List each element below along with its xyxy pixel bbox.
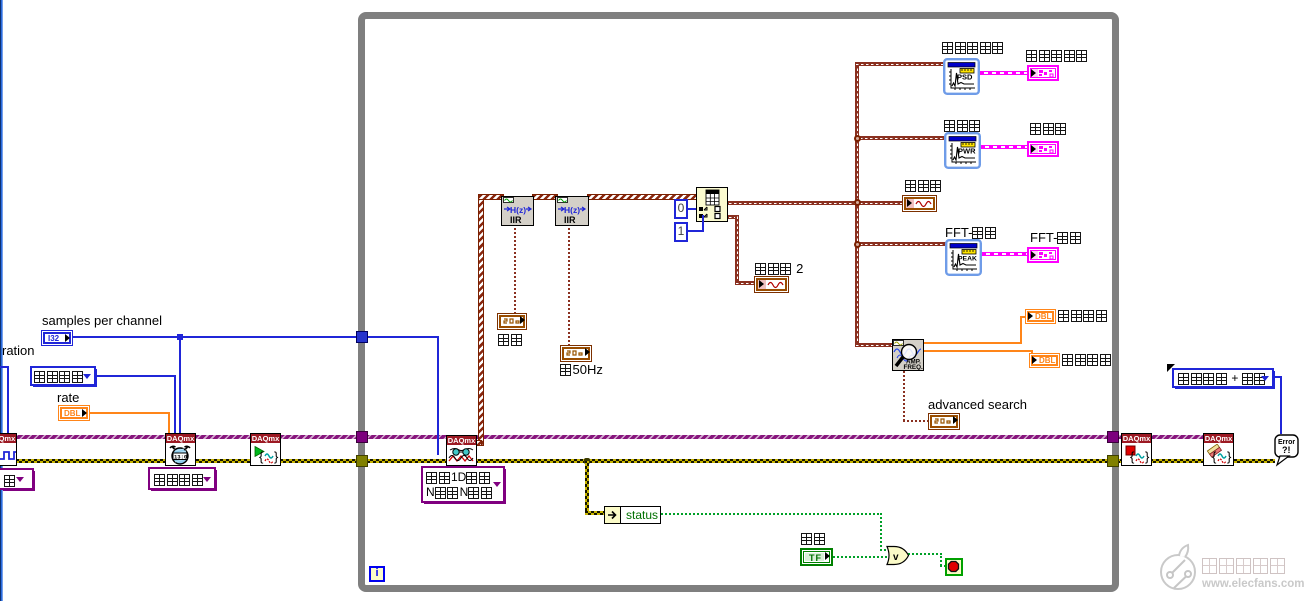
label: time domain graph: [905, 180, 943, 193]
label: PWR node: [944, 120, 982, 133]
wire: blue from continuous-sampling ring: [96, 375, 176, 377]
indicator: PWR dynamic data: [1027, 141, 1059, 157]
wire: 1 to index array: [688, 230, 704, 232]
svg-text:?!: ?!: [1282, 445, 1291, 455]
label: filter 50Hz: [560, 364, 603, 377]
wire: green OR output to stop terminal: [908, 553, 942, 555]
wire: blue vertical to DAQmx read: [437, 336, 439, 455]
terminal: loop iteration i: [369, 566, 385, 582]
wire: waveform branch to PSD: [855, 62, 944, 66]
indicator: PSD dynamic data: [1027, 65, 1059, 81]
wire: green TF to OR: [833, 556, 887, 558]
indicator: FFT peak dynamic data: [1027, 247, 1059, 263]
node: DAQmx clear task: [1203, 433, 1234, 466]
node: amplitude and frequency measurement AMP FREQ: [892, 339, 924, 371]
wire: waveform branch to AMP-FREQ: [855, 343, 893, 347]
node: IIR filter 1: [501, 196, 534, 226]
label: rate: [57, 391, 79, 404]
ring: OK message + warning (blue): [1172, 368, 1274, 388]
indicator: frequency result DBL: [1025, 309, 1056, 324]
svg-text:PSD: PSD: [957, 73, 973, 82]
node: index array: [696, 187, 728, 222]
indicator: time domain graph 2: [754, 276, 789, 293]
label: frequency result: [1058, 310, 1108, 323]
enum: highpass: [497, 313, 527, 330]
svg-text:PWR: PWR: [958, 147, 976, 156]
node: DAQmx create channel (cut at left edge): [0, 433, 17, 466]
ring: voltage (purple, cut at left): [0, 468, 34, 490]
wire: hatched horizontal IIR2-to-index-array: [587, 194, 698, 200]
wire: brown dotted IIR2 to 50Hz enum: [568, 226, 570, 346]
svg-text:IIR: IIR: [564, 215, 576, 225]
wire: hatched waveform-array vertical from DAQmx read: [478, 196, 484, 446]
svg-text:}: }: [1145, 449, 1150, 464]
wire: hatched stub into read node: [472, 440, 482, 446]
wire: brown dotted IIR1 to highpass enum: [514, 226, 516, 314]
wire: waveform branch to PWR: [859, 136, 945, 140]
constant: 0: [674, 199, 688, 219]
left window edge: [0, 0, 3, 601]
svg-text:}: }: [1227, 449, 1232, 464]
wire: orange AMP out2 to amplitude DBL: [924, 350, 1033, 352]
wire: samples per channel blue horizontal: [73, 336, 439, 338]
wire: 0 to index array: [688, 208, 696, 210]
watermark: elecfans logo: [1155, 543, 1203, 595]
wire: orange AMP out1 to frequency DBL: [924, 342, 1022, 344]
svg-text:v: v: [893, 552, 899, 563]
while loop border: [358, 12, 1119, 592]
wire: error cluster main run: [16, 459, 1275, 463]
wire: hatched horizontal read-to-IIR1: [478, 194, 504, 200]
node: bus junction at main input: [854, 199, 861, 206]
ring: continuous sampling (blue): [30, 366, 96, 386]
label: highpass: [498, 334, 523, 347]
node: simple error handler Error?!: [1274, 433, 1300, 467]
control: stop TF boolean: [800, 548, 833, 566]
svg-text:H(z): H(z): [510, 205, 526, 215]
tunnel: purple left: [356, 431, 368, 443]
wire: brown dotted AMP to advanced search: [903, 371, 905, 421]
watermark: url: [1202, 578, 1304, 590]
svg-text:13:0: 13:0: [174, 454, 187, 461]
node: DAQmx read: [446, 435, 477, 466]
control: rate DBL: [58, 405, 90, 421]
wire: waveform main index-array to bus: [728, 201, 860, 205]
wire: waveform horizontal to time-domain-2: [735, 281, 756, 285]
node: bus junction at PEAK: [854, 241, 861, 248]
tunnel: blue on left border: [356, 331, 368, 343]
svg-text:H(z): H(z): [564, 205, 580, 215]
node: blue junction on samples wire: [177, 334, 183, 340]
wire: orange rate to timing node: [90, 412, 170, 414]
enum: filter 50Hz: [560, 345, 592, 362]
terminal: loop condition stop: [945, 558, 963, 576]
control: samples per channel I32: [41, 330, 73, 346]
ring: sample clock (purple): [148, 467, 216, 490]
wire: DAQmx task purple main run: [16, 435, 1121, 439]
node: DAQmx timing: [165, 433, 196, 466]
svg-text:{: {: [259, 449, 264, 464]
wire: waveform bus vertical: [855, 62, 859, 347]
label: ration (cut): [2, 344, 35, 357]
express VI: FFT peak PEAK: [945, 239, 982, 276]
node: IIR filter 2: [555, 196, 589, 226]
wire: magenta PWR to indicator: [981, 145, 1027, 149]
svg-text:IIR: IIR: [510, 215, 522, 225]
wire: waveform index-array out2 stub: [728, 215, 739, 219]
svg-text:PEAK: PEAK: [958, 256, 977, 263]
constant: 1: [674, 222, 688, 242]
svg-text:{: {: [1130, 449, 1135, 464]
label: PSD node: [942, 42, 1005, 55]
indicator: time domain graph: [902, 195, 937, 212]
label: time domain graph 2: [755, 263, 803, 276]
tunnel: olive right: [1107, 455, 1119, 467]
svg-text:{: {: [1212, 449, 1217, 464]
wire: blue error-dialog ring to error-out: [1274, 376, 1282, 378]
node: error wire junction: [584, 458, 590, 464]
wire: hatched horizontal IIR1-to-IIR2: [532, 194, 558, 200]
wire: blue physical channel elbow at left edge: [0, 366, 9, 368]
wire: green status out: [661, 513, 882, 515]
tunnel: olive left: [356, 455, 368, 467]
marker: ring fold corner: [1167, 364, 1175, 372]
label: FFT peak node: [945, 227, 997, 240]
label: advanced search: [928, 398, 1027, 411]
indicator: amplitude result DBL: [1029, 353, 1060, 368]
label: FFT peak indicator: [1030, 232, 1082, 245]
express VI: power spectrum PWR: [944, 132, 981, 169]
label: PWR indicator: [1030, 123, 1068, 136]
label: samples per channel: [42, 314, 162, 327]
ring: analog 1D waveform N-chan N-samp (purple): [421, 466, 505, 503]
node: bus junction at PWR: [854, 135, 861, 142]
wire: waveform branch to PEAK: [859, 242, 946, 246]
wire: blue vertical junction to timing node: [179, 336, 181, 433]
wire: magenta PSD to indicator: [980, 71, 1027, 75]
node: unbundle by name status: [604, 506, 661, 524]
svg-text:FREQ.: FREQ.: [904, 364, 923, 370]
node: OR gate: [886, 545, 910, 567]
watermark: site name: [1202, 558, 1287, 576]
label: stop: [801, 533, 826, 546]
wire: magenta PEAK to indicator: [982, 252, 1027, 256]
label: amplitude result: [1062, 354, 1112, 367]
wire: waveform vertical down to time-domain-2: [735, 215, 739, 285]
label: PSD indicator: [1026, 50, 1089, 63]
node: DAQmx stop task: [1121, 433, 1152, 466]
express VI: power spectral density PSD: [943, 58, 980, 95]
wire: error branch down to status: [585, 461, 589, 511]
wire: waveform branch to time-domain indicator: [859, 201, 903, 205]
svg-text:}: }: [274, 449, 279, 464]
wire: task purple stop-to-clear: [1151, 435, 1203, 439]
enum: advanced search: [928, 413, 960, 430]
node: DAQmx start task: [250, 433, 281, 466]
tunnel: purple right: [1107, 431, 1119, 443]
